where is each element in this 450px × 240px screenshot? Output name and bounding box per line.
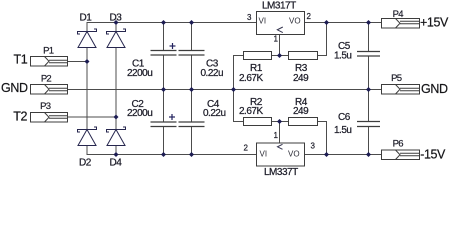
wire bottom rail left segment <box>87 146 257 155</box>
svg-text:P2: P2 <box>41 74 52 85</box>
LM337 ADJ arrow <box>278 144 283 149</box>
svg-text:VO: VO <box>289 16 301 25</box>
capacitor C4 <box>179 122 205 127</box>
node dot C4 bottom rail <box>189 152 194 157</box>
node dot C5 top rail <box>366 20 371 25</box>
svg-text:2200u: 2200u <box>127 108 152 119</box>
wire C1 column <box>163 23 165 51</box>
node dot LM317 ADJ junction <box>277 53 282 58</box>
wire T2 to D3 column <box>68 116 117 118</box>
svg-text:GND: GND <box>421 82 448 96</box>
wire C1 to GND <box>163 55 165 90</box>
svg-text:2200u: 2200u <box>127 68 152 79</box>
svg-text:1.5u: 1.5u <box>334 125 351 136</box>
LM317 ADJ arrow <box>277 27 283 33</box>
diode D1 <box>78 29 97 48</box>
node dot C1 GND <box>161 87 166 92</box>
wire GND to C2 <box>163 90 165 123</box>
svg-text:LM337T: LM337T <box>264 167 298 176</box>
svg-text:0.22u: 0.22u <box>201 68 224 79</box>
capacitor C2 <box>151 122 177 127</box>
svg-text:D3: D3 <box>110 12 123 23</box>
capacitor C5 <box>357 52 380 57</box>
node dot R4 bottom rail <box>324 152 329 157</box>
svg-text:249: 249 <box>293 73 309 84</box>
op-amp U2 LM337T box <box>257 143 305 166</box>
node dot R divider GND <box>231 87 236 92</box>
node dot C6 bottom rail <box>366 152 371 157</box>
wire C2 to bottom rail <box>163 127 165 155</box>
svg-text:D1: D1 <box>80 12 93 23</box>
svg-text:P3: P3 <box>40 101 51 112</box>
capacitor C3 <box>179 51 205 56</box>
wire R1 left to R2 left vertical <box>234 56 244 122</box>
connector P4 <box>382 19 420 29</box>
wire bottom rail right segment <box>305 154 382 156</box>
wire top rail left segment <box>87 23 257 32</box>
wire LM317 ADJ pin <box>279 35 281 56</box>
wire C6 to bottom rail <box>368 127 370 155</box>
wire LM337 ADJ pin <box>279 122 281 144</box>
svg-text:T1: T1 <box>14 53 28 67</box>
svg-text:GND: GND <box>1 81 28 95</box>
resistor R1 <box>244 52 272 60</box>
wire C4 to bottom rail <box>191 127 193 155</box>
wire D3-D4 column <box>115 48 117 130</box>
wire GND to C6 <box>368 90 370 122</box>
node dot R3 top rail <box>324 20 329 25</box>
node dot D3 top rail <box>114 20 119 25</box>
node dot C1 top rail <box>161 20 166 25</box>
connector P2 <box>31 85 68 95</box>
node dot T2 junction <box>114 115 119 120</box>
capacitor C6 <box>357 122 380 127</box>
wire R2 to R4 <box>272 121 289 123</box>
wire C5 to GND <box>368 56 370 90</box>
diode D3 <box>107 29 126 48</box>
wire GND rail <box>68 89 382 91</box>
svg-text:P6: P6 <box>393 139 404 150</box>
diode D4 <box>107 127 126 146</box>
svg-text:1: 1 <box>274 34 279 43</box>
node dot D4 bottom rail <box>114 152 119 157</box>
svg-text:1: 1 <box>274 131 279 140</box>
plus sign C2 <box>169 114 175 120</box>
node dot LM337 ADJ junction <box>277 119 282 124</box>
svg-text:+15V: +15V <box>420 16 449 30</box>
wire R3 right to top rail <box>318 23 327 56</box>
svg-text:D2: D2 <box>79 157 92 168</box>
svg-text:3: 3 <box>311 142 316 151</box>
node dot C2 bottom rail <box>161 152 166 157</box>
svg-text:T2: T2 <box>13 109 27 123</box>
wire C5 column top <box>368 23 370 52</box>
svg-text:2: 2 <box>307 12 312 21</box>
connector P3 <box>31 113 68 123</box>
connector P1 <box>31 57 68 67</box>
svg-text:VO: VO <box>288 150 300 159</box>
svg-text:3: 3 <box>247 13 252 22</box>
resistor R4 <box>289 118 318 126</box>
wire R1 to R3 <box>272 55 289 57</box>
wire D3 top stub <box>115 23 117 32</box>
svg-text:0.22u: 0.22u <box>203 108 226 119</box>
svg-text:P5: P5 <box>391 73 402 84</box>
svg-text:VI: VI <box>260 150 268 159</box>
op-amp U1 LM317T box <box>257 12 305 35</box>
wire GND to C4 <box>191 90 193 123</box>
svg-text:2: 2 <box>244 143 249 152</box>
node dot C3 GND <box>189 87 194 92</box>
svg-text:2.67K: 2.67K <box>239 73 263 84</box>
svg-text:2.67K: 2.67K <box>239 106 263 117</box>
resistor R2 <box>244 118 272 126</box>
plus sign C1 <box>170 43 176 49</box>
svg-text:VI: VI <box>259 16 267 25</box>
svg-text:LM317T: LM317T <box>262 1 296 12</box>
svg-text:249: 249 <box>293 106 309 117</box>
connector P5 <box>382 85 420 95</box>
svg-text:P1: P1 <box>43 46 54 57</box>
resistor R3 <box>289 52 318 60</box>
wire C3 to GND <box>191 55 193 90</box>
svg-text:D4: D4 <box>110 157 123 168</box>
wire D4 bottom stub <box>115 146 117 155</box>
wire R4 right to bottom rail <box>318 122 327 155</box>
svg-text:C6: C6 <box>338 112 351 123</box>
wire T1 to D1 column <box>68 61 88 63</box>
node dot T1 junction <box>85 59 90 64</box>
wire D1-D2 column <box>86 48 88 130</box>
wire C3 column <box>191 23 193 51</box>
svg-text:P4: P4 <box>393 9 404 20</box>
connector P6 <box>382 150 420 160</box>
svg-text:-15V: -15V <box>420 148 446 162</box>
node dot C5 GND <box>366 87 371 92</box>
wire top rail right segment <box>305 22 382 24</box>
diode D2 <box>78 127 97 146</box>
svg-text:1.5u: 1.5u <box>334 51 351 62</box>
capacitor C1 <box>151 51 177 56</box>
node dot C3 top rail <box>189 20 194 25</box>
